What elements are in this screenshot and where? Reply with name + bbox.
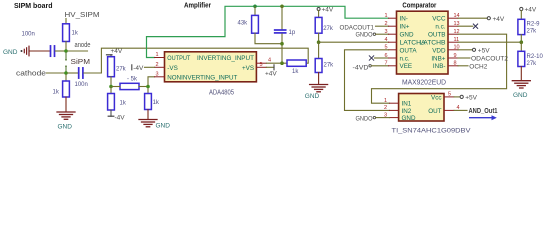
svg-text:OCH2: OCH2: [469, 64, 487, 71]
svg-text:2: 2: [156, 62, 159, 68]
pin 3 GND stub: [390, 117, 399, 119]
node output/1p junction: [280, 5, 284, 9]
svg-text:AND_Out1: AND_Out1: [469, 108, 498, 115]
resistor R2-10 27k: [518, 51, 525, 66]
power flag +4V (pin14): [487, 16, 505, 23]
pin 1 OUTPUT stub: [155, 57, 165, 59]
svg-text:27k: 27k: [527, 61, 538, 67]
svg-text:ADA4805: ADA4805: [209, 90, 234, 97]
wire pin5 to +5V: [454, 96, 460, 98]
svg-text:6: 6: [385, 53, 388, 59]
svg-text:GND: GND: [58, 123, 73, 130]
svg-text:4: 4: [385, 37, 388, 43]
svg-text:-4VD: -4VD: [353, 65, 369, 72]
node output divider junction: [520, 40, 524, 44]
svg-text:1p: 1p: [289, 30, 296, 36]
svg-text:1: 1: [156, 52, 159, 58]
svg-text:100n: 100n: [22, 32, 35, 38]
svg-text:GND: GND: [156, 123, 171, 130]
svg-text:OUTB: OUTB: [428, 32, 446, 39]
svg-text:100n: 100n: [75, 82, 88, 88]
node cathode junction: [64, 71, 68, 75]
SECTION: AND gate: [356, 91, 498, 134]
capacitor C1 100n: [51, 46, 55, 56]
capacitor C2 100n: [79, 68, 83, 78]
no-connect X (pin6): [369, 56, 388, 60]
svg-text:2: 2: [385, 21, 388, 27]
ground GND1 (left, pointing left): [3, 46, 29, 56]
svg-text:TI_SN74AHC1G09DBV: TI_SN74AHC1G09DBV: [392, 128, 472, 135]
wire anode label stub: [68, 50, 88, 52]
wire HV_SIPM stub: [65, 19, 67, 24]
SECTION: Amplifier: [107, 3, 389, 130]
svg-text:SiPM: SiPM: [71, 59, 91, 66]
svg-text:IN+: IN+: [400, 24, 410, 31]
wire pin10 to +5V: [458, 49, 472, 51]
resistor 1k (inverting, horizontal): [287, 60, 306, 66]
pin 9 INB+ stub: [448, 57, 458, 59]
svg-text:9: 9: [454, 53, 457, 59]
wire 5k to right node: [139, 86, 146, 88]
power flag +4V (R2-9 top): [520, 7, 537, 20]
svg-text:cathode: cathode: [16, 70, 46, 77]
pin 14 VCC stub: [448, 17, 458, 19]
svg-text:Vcc: Vcc: [431, 94, 442, 101]
resistor 27k (bias upper): [108, 57, 115, 77]
wire pin8 stub: [458, 65, 468, 67]
svg-text:GND: GND: [3, 49, 18, 56]
svg-text:anode: anode: [75, 42, 91, 49]
wire 1p bottom stub: [281, 34, 283, 42]
wire LATCHA net: [320, 41, 388, 43]
wire R to anode: [65, 42, 67, 52]
node noninverting junction: [146, 85, 150, 89]
svg-text:3: 3: [156, 71, 159, 77]
svg-text:R2-9: R2-9: [527, 21, 541, 27]
svg-text:5: 5: [448, 91, 451, 97]
svg-text:1k: 1k: [72, 31, 79, 37]
svg-text:ODACOUT2: ODACOUT2: [471, 56, 508, 63]
no-connect X (pin13): [473, 24, 477, 28]
svg-text:1: 1: [384, 98, 387, 104]
wire node to 5k: [113, 86, 120, 88]
svg-text:IN2: IN2: [402, 108, 412, 115]
pin 10 VDD stub: [448, 49, 458, 51]
SiPM detector D1 (pins): [65, 53, 67, 71]
svg-text:R2-10: R2-10: [527, 54, 544, 60]
svg-text:INB+: INB+: [431, 55, 445, 62]
svg-text:HV_SIPM: HV_SIPM: [65, 12, 100, 19]
op-amp U1 ADA4805 body: [165, 52, 257, 82]
svg-text:1k: 1k: [53, 90, 60, 96]
svg-text:1k: 1k: [153, 100, 160, 106]
svg-text:1k: 1k: [120, 101, 127, 107]
pin 5 +VS stub: [256, 66, 266, 68]
svg-text:Amplifier: Amplifier: [184, 3, 211, 10]
svg-text:27k: 27k: [324, 62, 335, 68]
wire pin13 to nc: [458, 25, 473, 27]
pin 11 LATCHB stub: [448, 41, 458, 43]
power flag +5V (pin10): [472, 47, 490, 54]
svg-text:OUTPUT: OUTPUT: [167, 55, 190, 62]
pin 4 LATCHA stub: [389, 41, 397, 43]
wire pin9 stub: [458, 57, 470, 59]
resistor 43k (feedback): [252, 15, 259, 33]
wire pin4 to node: [266, 62, 287, 64]
svg-text:+4V: +4V: [493, 16, 505, 23]
label GNDO (AND pin3): [356, 115, 390, 122]
node latch divider junction: [317, 40, 321, 44]
resistor R 1k (HV): [63, 24, 70, 42]
wire cathode long net to inverting input: [101, 48, 308, 73]
svg-text:27k: 27k: [527, 29, 538, 35]
node bias junction: [109, 85, 113, 89]
AND gate U3 SN74AHC1G09 body: [399, 94, 444, 122]
wire 43k bottom to feedback line: [255, 33, 282, 63]
svg-text:GNDO: GNDO: [356, 32, 373, 39]
svg-text:- 5k: - 5k: [127, 77, 138, 83]
svg-text:n.c.: n.c.: [435, 24, 445, 31]
wire C2 to corner: [84, 72, 102, 74]
wire green amp output net: [147, 6, 389, 57]
svg-text:+4V: +4V: [265, 71, 277, 78]
pin 3 NONINVERTING stub: [155, 76, 165, 78]
wire GND1 to C1: [30, 50, 50, 52]
wire node down to 1k: [147, 88, 149, 93]
svg-text:8: 8: [454, 61, 457, 67]
power flag +4V (latch divider): [317, 7, 334, 18]
power flag -4V (pin2): [132, 65, 155, 72]
svg-text:Comparator: Comparator: [402, 2, 436, 9]
svg-text:+4V: +4V: [525, 7, 537, 14]
ground GND2: [57, 112, 75, 130]
wire 43k top stub: [254, 6, 256, 15]
power flag +4V (bias 27k top): [107, 48, 123, 57]
comparator U2 MAX9202EUD body: [397, 11, 449, 74]
svg-text:1: 1: [385, 13, 388, 19]
wire R down to GND2: [65, 97, 67, 112]
pin 2 IN2 stub: [390, 109, 399, 111]
pin 5 OUTA stub: [389, 49, 397, 51]
wire 1k to GND3: [147, 110, 149, 120]
pin 3 GND stub: [389, 33, 397, 35]
svg-text:5: 5: [260, 62, 263, 68]
pin 13 n.c. stub: [448, 25, 458, 27]
svg-text:GND: GND: [402, 115, 416, 122]
wire 27k to latch node: [318, 33, 320, 42]
svg-text:IN1: IN1: [402, 101, 412, 108]
wire cathode label to node: [47, 72, 65, 74]
pin 1 IN1 stub: [390, 102, 399, 104]
svg-text:-4V: -4V: [115, 115, 126, 122]
svg-text:GND: GND: [305, 93, 320, 100]
capacitor 1p stub top: [281, 6, 283, 29]
pin 4 INVERTING stub: [256, 62, 266, 64]
svg-text:+4V: +4V: [111, 48, 123, 55]
svg-text:27k: 27k: [116, 66, 127, 72]
wire R2-9 to node: [520, 35, 522, 43]
wire pin14 to +4V: [458, 17, 487, 19]
wire OUTA to AND IN2: [345, 50, 390, 111]
pin 12 OUTB stub: [448, 33, 458, 35]
resistor 1k (noninv to GND): [145, 94, 152, 110]
pin 4 OUT stub: [444, 109, 454, 111]
ground GND3: [139, 120, 170, 130]
pin 8 INB- stub: [448, 65, 458, 67]
arrow AND_Out1 direction: [470, 115, 497, 120]
wire node down to 1k: [110, 87, 112, 94]
resistor 27k (divider upper): [315, 17, 322, 33]
svg-text:n.c.: n.c.: [400, 55, 410, 62]
wire ODACOUT1 to pin2: [376, 25, 389, 27]
wire pin12 OUTB to AND IN1: [372, 34, 507, 103]
svg-text:+5V: +5V: [478, 47, 490, 54]
power flag +5V (AND Vcc): [460, 95, 478, 102]
wire 27k to node: [110, 77, 112, 85]
wire node up to pin3: [148, 77, 155, 85]
resistor R 1k (cathode to GND): [63, 81, 70, 97]
wire pin11 LATCHB to divider: [458, 41, 521, 43]
label -4VD (pin7 VEE): [353, 65, 389, 72]
svg-text:ODACOUT1: ODACOUT1: [340, 25, 375, 32]
svg-text:7: 7: [385, 61, 388, 67]
svg-text:IN-: IN-: [400, 16, 408, 23]
svg-text:INVERTING_INPUT: INVERTING_INPUT: [197, 55, 254, 62]
node output/43k junction: [253, 5, 257, 9]
wire cathode node down: [65, 75, 67, 81]
svg-text:2: 2: [384, 105, 387, 111]
SECTION: Comparator: [305, 2, 544, 110]
svg-text:VEE: VEE: [400, 63, 413, 70]
wire cathode node to C2: [68, 72, 78, 74]
wire C1 to anode node: [55, 50, 64, 52]
power flag +4V (pin5): [265, 65, 277, 78]
node anode junction: [64, 49, 68, 53]
resistor 27k (divider lower): [315, 59, 322, 73]
svg-text:1k: 1k: [292, 69, 299, 75]
pin 2 -VS stub: [155, 66, 165, 68]
svg-text:+VS: +VS: [242, 65, 254, 72]
svg-text:27k: 27k: [323, 26, 334, 32]
ground GND5: [512, 81, 530, 99]
svg-text:3: 3: [385, 29, 388, 35]
svg-text:GND: GND: [513, 92, 528, 99]
power flag -4V (below 1k): [108, 110, 125, 122]
capacitor 1p (feedback): [275, 30, 286, 33]
ground GND4: [305, 85, 328, 101]
resistor 5k (horizontal): [120, 83, 139, 89]
svg-text:VDD: VDD: [432, 47, 446, 54]
label GNDO (comparator pin3): [356, 32, 389, 39]
pin 7 VEE stub: [389, 65, 397, 67]
svg-text:SIPM board: SIPM board: [14, 3, 53, 10]
resistor 1k (bias lower): [108, 94, 115, 111]
svg-text:LATCHB: LATCHB: [420, 40, 446, 47]
svg-text:INB-: INB-: [433, 63, 446, 70]
SECTION: SIPM board: [3, 3, 308, 130]
svg-text:NONINVERTING_INPUT: NONINVERTING_INPUT: [167, 74, 237, 81]
wire latch node down to 27k lower: [318, 42, 320, 58]
node inverting junction: [280, 61, 284, 65]
svg-text:GND: GND: [400, 32, 414, 39]
svg-text:OUT: OUT: [428, 108, 441, 115]
pin 5 Vcc stub: [444, 96, 454, 98]
svg-text:OUTA: OUTA: [400, 47, 418, 54]
wire R2-10 to GND5: [520, 67, 522, 81]
svg-text:-VS: -VS: [167, 65, 178, 72]
svg-text:43k: 43k: [238, 20, 249, 26]
svg-text:GNDO: GNDO: [356, 115, 373, 122]
svg-text:VCC: VCC: [432, 16, 446, 23]
node feedback junction: [280, 42, 284, 46]
wire 27k lower to GND4: [318, 73, 320, 85]
svg-text:+5V: +5V: [465, 95, 477, 102]
wire node to R2-10: [520, 42, 522, 51]
pin 6 n.c. stub: [389, 57, 397, 59]
pin 2 IN+ stub: [389, 25, 397, 27]
svg-text:MAX9202EUD: MAX9202EUD: [402, 80, 446, 87]
wire pin4 to AND_Out1: [454, 109, 467, 111]
pin 1 IN- stub: [389, 17, 397, 19]
svg-text:-4V: -4V: [133, 65, 144, 72]
svg-text:+4V: +4V: [322, 7, 334, 14]
resistor R2-9 27k: [518, 19, 525, 34]
